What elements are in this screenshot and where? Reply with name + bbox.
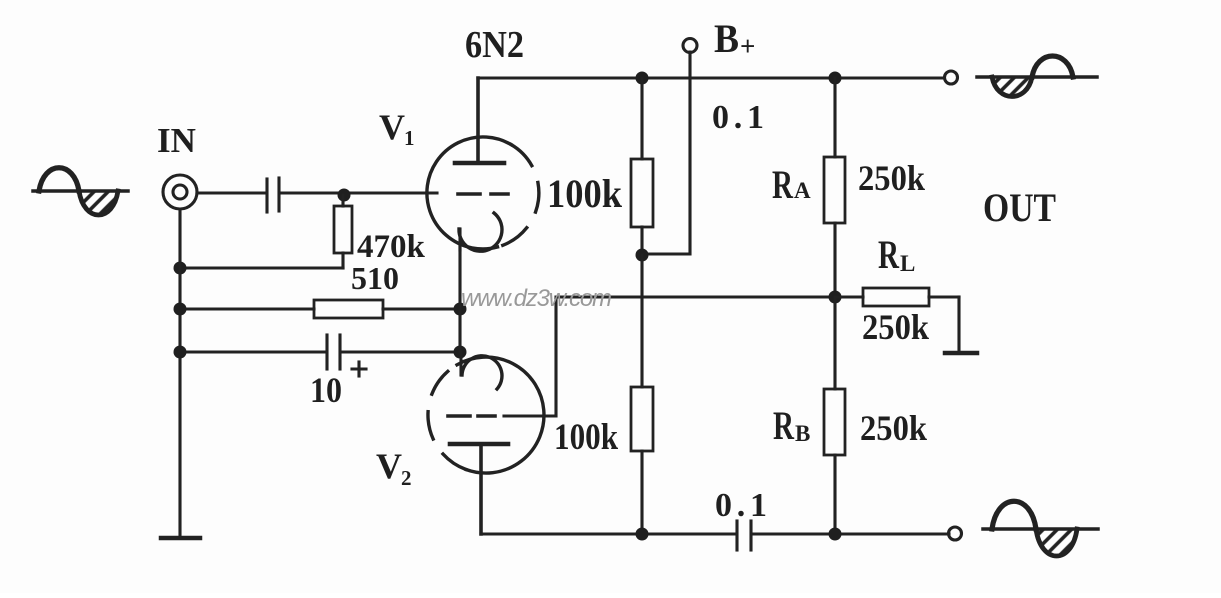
wire 470k to left rail xyxy=(180,266,343,269)
node cathode-10uF xyxy=(454,346,467,359)
wire between 100k resistors xyxy=(640,255,643,387)
svg-text:B: B xyxy=(714,16,739,61)
resistor R 470k xyxy=(334,195,352,268)
terminal OUT top xyxy=(945,71,958,84)
left ground rail xyxy=(178,209,181,538)
node rail-510 xyxy=(174,303,187,316)
label RB xyxy=(773,403,810,448)
node bottom rail - RB xyxy=(829,528,842,541)
terminal B+ xyxy=(683,39,697,53)
node bottom rail - 100k xyxy=(636,528,649,541)
svg-text:250k: 250k xyxy=(862,307,929,347)
triode V1 plate xyxy=(455,78,504,163)
svg-text:1: 1 xyxy=(404,126,415,150)
wire rail to R510 xyxy=(180,307,314,310)
svg-text:OUT: OUT xyxy=(983,185,1056,230)
output waveform top xyxy=(977,56,1097,97)
node rail-10uF xyxy=(174,346,187,359)
resistor 100k lower xyxy=(631,387,653,534)
node divider junction xyxy=(829,291,842,304)
bottom plate rail left xyxy=(481,532,735,535)
svg-text:L: L xyxy=(900,251,915,276)
label V2 xyxy=(376,446,412,490)
svg-text:R: R xyxy=(773,403,795,448)
triode V2 grid dashes xyxy=(448,414,495,418)
wire rail to C 10uF xyxy=(180,350,325,353)
resistor R 510 xyxy=(314,300,383,318)
svg-text:V: V xyxy=(379,107,405,147)
wire C1 to V1 grid xyxy=(281,191,437,194)
node cathode-510 xyxy=(454,303,467,316)
label RL xyxy=(878,232,915,277)
capacitor C 10uF xyxy=(327,335,366,376)
capacitor 0.1 output xyxy=(737,521,751,550)
triode V2 plate xyxy=(450,444,508,534)
label V1 xyxy=(379,107,415,150)
wire RL to ground xyxy=(957,297,960,352)
triode V1 envelope xyxy=(427,137,539,249)
svg-text:2: 2 xyxy=(401,466,412,490)
label B+ xyxy=(714,16,755,61)
svg-text:V: V xyxy=(376,446,402,486)
svg-text:250k: 250k xyxy=(860,408,927,448)
wire cathode column V1-V2 xyxy=(458,245,461,352)
triode V2 envelope xyxy=(428,357,544,473)
svg-text:R: R xyxy=(878,232,900,277)
terminal OUT bottom xyxy=(949,527,962,540)
node plate rail - 100k xyxy=(636,72,649,85)
triode V2 cathode xyxy=(461,352,502,389)
wire B+ lead down to 100k junction xyxy=(643,52,690,254)
capacitor C1 coupling xyxy=(267,178,279,212)
wire V2 grid to divider node xyxy=(504,297,835,416)
input jack J1 xyxy=(163,175,197,209)
ground (left) xyxy=(161,536,200,541)
bottom plate rail right xyxy=(753,532,949,535)
label RA xyxy=(772,162,811,207)
svg-text:6N2: 6N2 xyxy=(465,24,524,66)
svg-text:10: 10 xyxy=(310,370,342,410)
svg-text:A: A xyxy=(794,178,811,203)
svg-text:www.dz3w.com: www.dz3w.com xyxy=(461,285,612,312)
wire R510 to cathode node xyxy=(383,307,460,310)
svg-text:+: + xyxy=(740,31,755,61)
node plate rail - RA xyxy=(829,72,842,85)
svg-text:100k: 100k xyxy=(547,171,623,216)
top plate rail xyxy=(478,76,944,79)
triode V1 grid dashes xyxy=(458,192,508,196)
svg-text:0.1: 0.1 xyxy=(715,487,767,524)
output waveform bottom xyxy=(983,501,1098,556)
resistor RB xyxy=(824,297,845,534)
resistor 100k upper xyxy=(631,78,653,255)
node rail-470k xyxy=(174,262,187,275)
node B+ junction xyxy=(636,249,649,262)
svg-text:B: B xyxy=(795,421,810,446)
triode V1 cathode xyxy=(459,213,502,251)
svg-text:0.1: 0.1 xyxy=(712,99,764,136)
resistor RA xyxy=(824,78,845,297)
svg-text:IN: IN xyxy=(157,121,196,160)
wire J1 to C1 xyxy=(197,191,265,194)
ground (right) xyxy=(945,351,977,356)
svg-text:100k: 100k xyxy=(554,417,618,458)
svg-text:510: 510 xyxy=(351,260,399,296)
svg-text:250k: 250k xyxy=(858,158,925,198)
wire 10uF to cathode node xyxy=(342,350,460,353)
svg-text:R: R xyxy=(772,162,794,207)
resistor RL xyxy=(835,288,959,306)
input waveform xyxy=(33,168,128,215)
node grid-470k junction xyxy=(338,189,351,202)
